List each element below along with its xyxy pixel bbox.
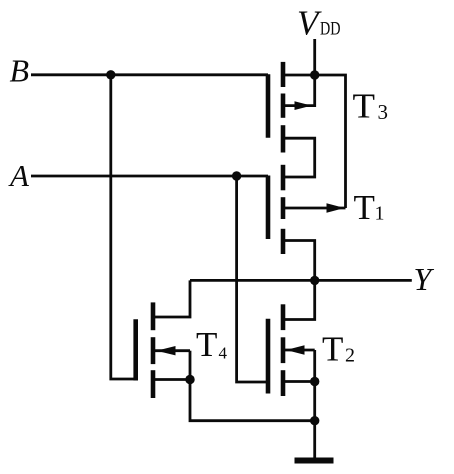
node B input label (10, 53, 30, 89)
wire T2 substrate to source (313, 350, 316, 382)
wire A vertical to T2 gate (237, 176, 268, 382)
wire B vertical to T4 gate (111, 75, 136, 379)
wire T3 substrate arrow lead (283, 75, 315, 106)
ground symbol (295, 458, 334, 464)
transistor T1 gate bar (266, 176, 271, 240)
transistor T1 label (354, 188, 385, 227)
junction Y node (310, 276, 319, 285)
wire T2 substrate arrow lead (283, 349, 315, 352)
wire VDD lead (313, 39, 316, 75)
transistor T3 channel segment 2 (281, 94, 286, 118)
node Y output label (414, 261, 435, 297)
transistor T1 channel segment 2 (281, 197, 286, 219)
wire T4 source lead (153, 378, 190, 381)
junction T2 source node (310, 377, 319, 386)
wire A input line (31, 175, 268, 178)
svg-text:T: T (196, 325, 217, 364)
junction on A line (232, 171, 241, 180)
transistor T1 substrate arrowhead (327, 203, 345, 213)
wire T2 source lead (283, 380, 315, 383)
svg-text:3: 3 (378, 100, 389, 124)
svg-text:T: T (322, 330, 343, 369)
node A input label (8, 158, 30, 193)
transistor T3 gate bar (266, 74, 271, 138)
wire B input line (31, 73, 268, 76)
transistor T2 substrate arrowhead (286, 345, 305, 354)
wire Y output line (190, 279, 412, 282)
svg-text:DD: DD (320, 20, 341, 40)
transistor T3 label (353, 86, 389, 125)
transistor T4 channel segment 2 (151, 337, 156, 364)
transistor T2 channel segment 1 (281, 304, 286, 330)
svg-text:Y: Y (414, 261, 435, 297)
transistor T3 channel segment 3 (281, 125, 286, 152)
junction VDD node (310, 70, 319, 79)
svg-text:T: T (353, 86, 376, 125)
transistor T4 channel segment 3 (151, 370, 156, 398)
transistor T2 channel segment 3 (281, 370, 286, 396)
transistor T4 channel segment 1 (151, 302, 156, 330)
wire T3 source to T1 drain (283, 138, 315, 177)
wire T1 source down to Y node (283, 241, 315, 281)
junction on B line (106, 70, 115, 79)
wire Y node down to T2 drain (283, 280, 315, 319)
transistor T4 gate bar (133, 319, 138, 380)
wire T4 substrate to source (189, 351, 192, 380)
transistor T2 label (322, 330, 355, 369)
wire T1 substrate arrow lead (283, 207, 346, 210)
node VDD label (297, 4, 341, 43)
junction ground node (310, 416, 319, 425)
wire T3 drain to VDD node (283, 74, 315, 77)
transistor T4 substrate arrowhead (157, 346, 176, 355)
transistor T2 channel segment 2 (281, 337, 286, 363)
transistor T1 channel segment 1 (281, 165, 286, 191)
transistor T2 gate bar (266, 319, 271, 394)
svg-text:B: B (10, 53, 30, 89)
wire T4 drain up to Y line (153, 280, 190, 317)
wire T4 source to ground rail (190, 380, 315, 421)
svg-text:T: T (354, 188, 375, 227)
transistor T1 channel segment 3 (281, 229, 286, 254)
wire T2 source down to ground (313, 382, 316, 459)
transistor T4 label (196, 325, 228, 364)
svg-text:4: 4 (219, 344, 228, 363)
junction T4 source node (185, 375, 194, 384)
svg-text:A: A (8, 158, 30, 193)
wire VDD node to right rail (315, 75, 346, 208)
transistor T3 channel segment 1 (281, 62, 286, 87)
svg-text:1: 1 (375, 203, 385, 225)
svg-text:V: V (297, 4, 322, 43)
transistor T3 substrate arrowhead (295, 101, 312, 110)
wire T4 substrate arrow lead (153, 349, 190, 352)
svg-text:2: 2 (345, 345, 355, 367)
